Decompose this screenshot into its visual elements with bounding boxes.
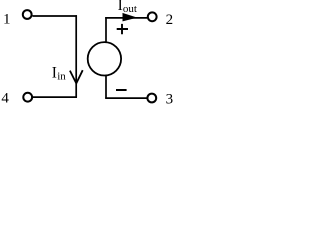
svg-text:4: 4	[1, 91, 9, 107]
svg-text:I: I	[52, 65, 57, 82]
arrowhead Iin (open V, pointing down)	[70, 70, 83, 83]
wire bottom-right horizontal	[105, 97, 147, 99]
plus sign	[117, 24, 128, 34]
wire bottom-left horizontal	[33, 96, 77, 98]
wire source bottom stub	[105, 76, 107, 99]
terminal 3	[147, 94, 156, 103]
wire source top stub	[105, 17, 107, 42]
svg-text:1: 1	[3, 12, 11, 28]
svg-text:2: 2	[166, 12, 174, 28]
minus sign	[116, 89, 127, 91]
dependent source circle	[88, 42, 121, 75]
svg-text:3: 3	[166, 91, 174, 107]
arrowhead Iout (filled, pointing right)	[123, 14, 136, 21]
svg-text:out: out	[123, 3, 137, 15]
terminal 2	[148, 12, 157, 21]
wire top-left horizontal	[33, 15, 78, 17]
wire top-right horizontal	[105, 17, 147, 19]
svg-text:in: in	[57, 71, 66, 83]
terminal 1	[23, 10, 32, 19]
terminal 4	[23, 93, 32, 102]
wire left vertical	[75, 15, 77, 97]
